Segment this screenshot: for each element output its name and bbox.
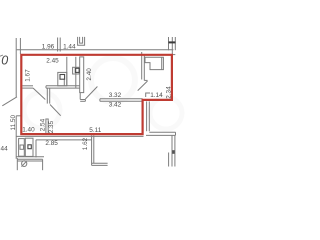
dark hatch top-right stub (169, 41, 176, 43)
counter U (17, 158, 42, 160)
vent shaft U inner (80, 37, 83, 43)
pier rect (80, 57, 84, 93)
electro box 2 (73, 67, 80, 74)
fixture rect B (25, 138, 33, 156)
margin door swing (2, 97, 17, 106)
neighbor bottom-right wall horizontal (149, 131, 175, 133)
partition stub (46, 119, 48, 133)
niche wall stub (141, 52, 143, 80)
wall stub top-right line 3 (174, 37, 176, 50)
wall left outer (15, 38, 17, 97)
wall B (75, 57, 77, 88)
svg-text:2.54: 2.54 (40, 118, 47, 131)
door swing room1 (33, 88, 45, 100)
electro box 2 dark (75, 68, 79, 72)
red apartment outline (21, 55, 172, 134)
watermark circle 1 (91, 58, 135, 102)
svg-text:1.40: 1.40 (22, 127, 35, 134)
svg-text:3.32: 3.32 (109, 92, 122, 99)
sink symbol (22, 161, 27, 167)
svg-text:2.35: 2.35 (48, 120, 55, 133)
neighbor right wall vertical (171, 135, 173, 166)
dark hatch right wall (172, 150, 175, 154)
electro box 1 (58, 72, 67, 85)
svg-text:2.45: 2.45 (46, 58, 59, 65)
wall top outer (17, 49, 174, 51)
niche rect (145, 57, 163, 69)
under line bottom (16, 135, 143, 137)
neighbor room wall left (35, 140, 37, 158)
svg-text:2.34: 2.34 (165, 86, 172, 99)
fixture small box (20, 145, 24, 149)
door swing balcony (138, 81, 148, 91)
neighbor wall right notch (146, 101, 148, 131)
wall left inner upper (19, 38, 21, 54)
fixture rect A (19, 139, 25, 157)
wall bar mid (99, 99, 101, 102)
wall stub top-right line 2 (171, 37, 173, 55)
svg-text:1.44: 1.44 (0, 145, 8, 152)
wall hall bottom mid segment (46, 85, 80, 87)
svg-text:2.85: 2.85 (45, 140, 58, 147)
vent shaft U outer (78, 37, 85, 45)
door swing room3 (85, 87, 97, 100)
wall stub top-right line 1 (168, 37, 170, 50)
watermark circle 3 (24, 92, 60, 128)
neighbor room wall top (36, 139, 92, 141)
svg-text:1.96: 1.96 (42, 43, 55, 50)
wall cap (45, 86, 47, 88)
svg-text:1.44: 1.44 (63, 44, 76, 51)
wall hall bottom left segment (22, 85, 33, 87)
electro box 1 dark (60, 75, 65, 80)
svg-text:1.67: 1.67 (24, 69, 31, 82)
door swing room2 (50, 105, 61, 116)
wall A (66, 57, 68, 86)
svg-text:2.40: 2.40 (86, 68, 93, 81)
svg-text:1.62: 1.62 (82, 137, 89, 150)
svg-text:11.50: 11.50 (10, 115, 17, 131)
dimension tick pair top (57, 38, 59, 52)
wall top inner right end (171, 54, 175, 56)
neighbor left wall below (91, 135, 93, 165)
wall stub down (46, 88, 48, 104)
bathroom south wall (16, 156, 44, 158)
pier foot (79, 93, 81, 100)
svg-text:3.42: 3.42 (109, 102, 122, 109)
watermark circle 2 (150, 97, 182, 129)
bracket 1.14 (146, 93, 150, 97)
svg-text:1.14: 1.14 (150, 92, 163, 99)
svg-text:5.11: 5.11 (89, 127, 101, 134)
